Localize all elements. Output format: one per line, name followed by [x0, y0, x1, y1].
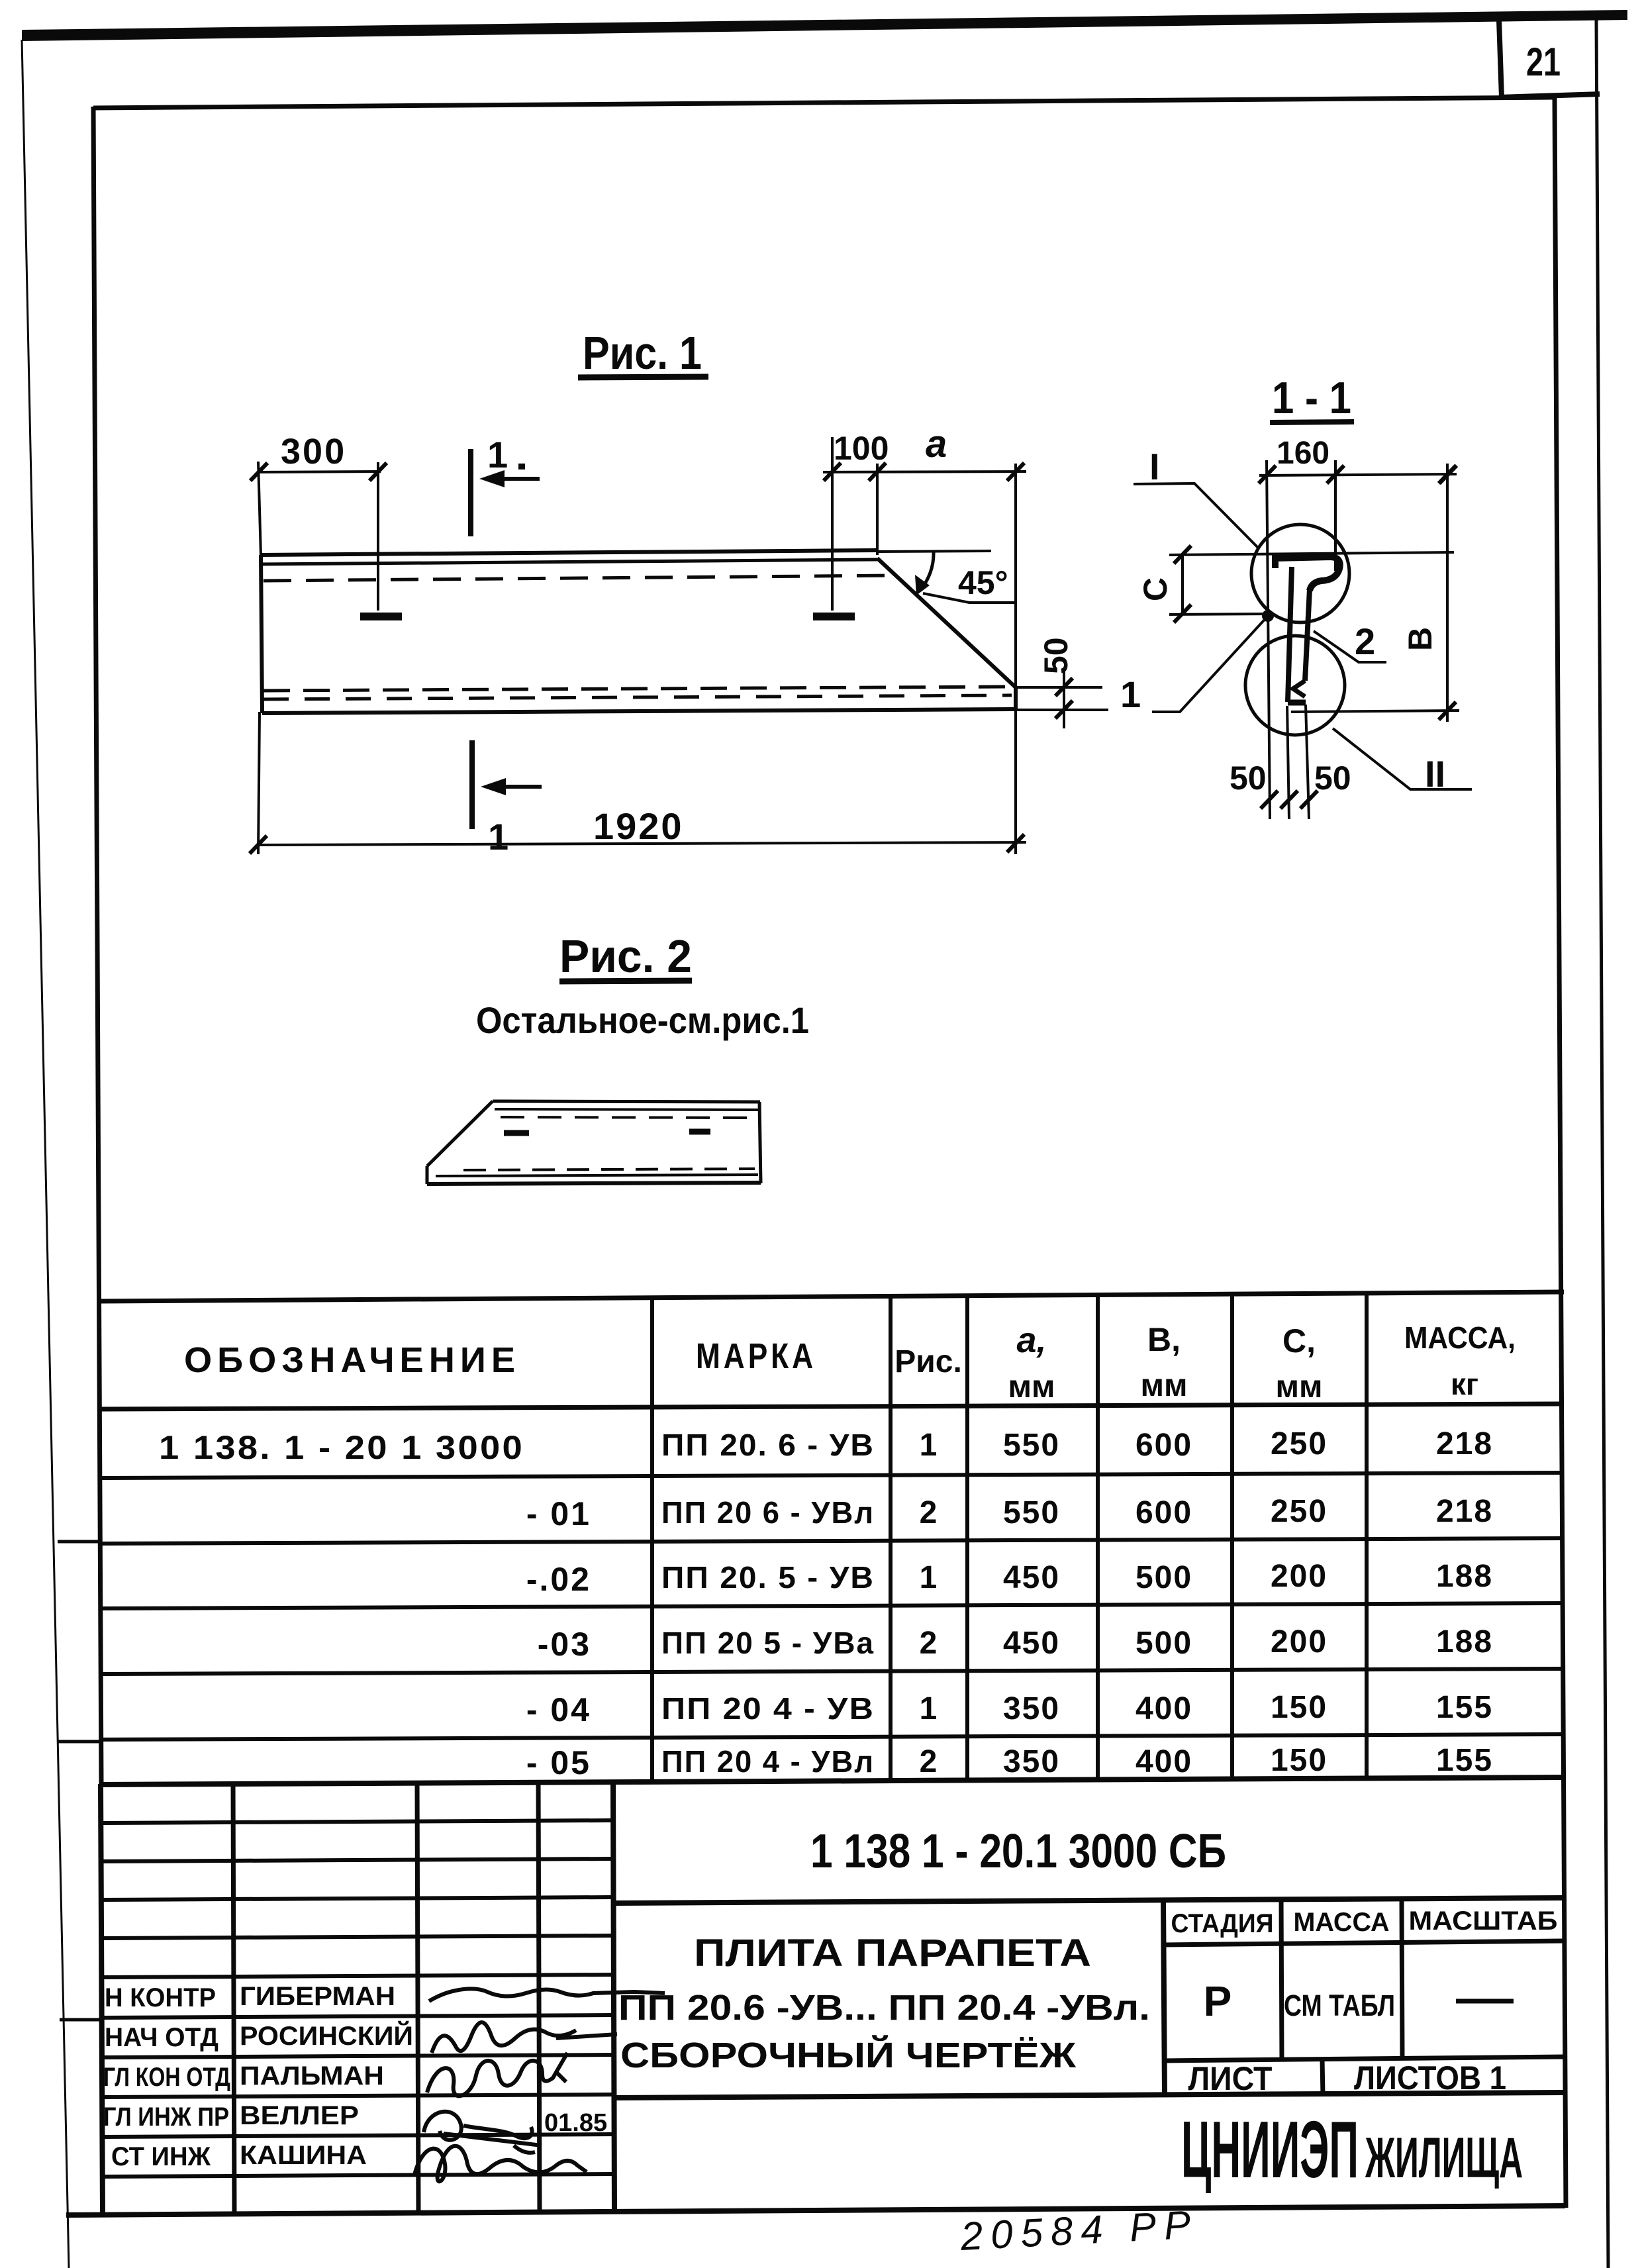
svg-text:188: 188: [1436, 1559, 1493, 1594]
svg-text:600: 600: [1135, 1428, 1192, 1463]
svg-text:500: 500: [1135, 1560, 1192, 1595]
svg-text:- 04: - 04: [526, 1691, 591, 1728]
svg-text:-03: -03: [538, 1626, 591, 1663]
svg-text:1 138 1 - 20.1 3000 СБ: 1 138 1 - 20.1 3000 СБ: [810, 1825, 1226, 1878]
svg-text:45°: 45°: [958, 564, 1008, 601]
svg-text:200: 200: [1271, 1624, 1328, 1659]
svg-text:МАССА,: МАССА,: [1404, 1320, 1516, 1355]
svg-text:1 - 1: 1 - 1: [1272, 373, 1351, 423]
svg-text:50: 50: [1314, 760, 1351, 797]
svg-text:350: 350: [1003, 1691, 1060, 1726]
svg-text:ПП 20 4 - УВл: ПП 20 4 - УВл: [661, 1744, 875, 1779]
svg-text:СТАДИЯ: СТАДИЯ: [1171, 1909, 1274, 1938]
svg-text:160: 160: [1277, 436, 1329, 471]
svg-text:СТ ИНЖ: СТ ИНЖ: [111, 2142, 211, 2171]
svg-text:450: 450: [1003, 1560, 1060, 1595]
svg-text:1: 1: [920, 1560, 938, 1595]
svg-text:НАЧ ОТД: НАЧ ОТД: [105, 2023, 218, 2052]
svg-text:21: 21: [1526, 40, 1561, 84]
svg-text:1920: 1920: [593, 805, 684, 847]
svg-text:300: 300: [281, 432, 346, 471]
svg-text:РОСИНСКИЙ: РОСИНСКИЙ: [240, 2020, 413, 2051]
svg-text:ГЛ ИНЖ ПР: ГЛ ИНЖ ПР: [103, 2102, 229, 2132]
svg-text:50: 50: [1038, 637, 1075, 674]
svg-text:-.02: -.02: [526, 1561, 591, 1598]
svg-text:- 01: - 01: [526, 1495, 591, 1532]
svg-text:ПП 20 5 - УВа: ПП 20 5 - УВа: [661, 1626, 875, 1660]
svg-text:400: 400: [1135, 1744, 1192, 1779]
svg-text:250: 250: [1271, 1426, 1328, 1461]
svg-text:ВЕЛЛЕР: ВЕЛЛЕР: [240, 2101, 359, 2130]
svg-text:155: 155: [1436, 1690, 1493, 1725]
svg-text:50: 50: [1230, 760, 1267, 797]
svg-text:- 05: - 05: [526, 1744, 591, 1781]
svg-text:a: a: [926, 422, 947, 466]
svg-text:I: I: [1149, 446, 1160, 487]
svg-text:450: 450: [1003, 1626, 1060, 1661]
svg-text:ГИБЕРМАН: ГИБЕРМАН: [240, 1982, 395, 2011]
svg-text:500: 500: [1135, 1626, 1192, 1661]
svg-text:2: 2: [1355, 620, 1375, 662]
svg-text:Рис. 2: Рис. 2: [559, 930, 692, 982]
svg-text:ЛИСТ: ЛИСТ: [1188, 2060, 1273, 2097]
svg-text:ЖИЛИЩА: ЖИЛИЩА: [1365, 2126, 1523, 2190]
svg-text:СМ ТАБЛ: СМ ТАБЛ: [1284, 1989, 1395, 2022]
svg-text:2: 2: [920, 1744, 938, 1779]
svg-text:2: 2: [920, 1495, 938, 1530]
svg-text:1: 1: [920, 1691, 938, 1726]
svg-text:Р: Р: [1204, 1977, 1232, 2025]
svg-text:СБОРОЧНЫЙ ЧЕРТЁЖ: СБОРОЧНЫЙ ЧЕРТЁЖ: [620, 2035, 1077, 2075]
svg-text:350: 350: [1003, 1744, 1060, 1779]
svg-text:150: 150: [1271, 1743, 1328, 1778]
svg-text:ПП 20. 6 - УВ: ПП 20. 6 - УВ: [661, 1428, 875, 1462]
svg-text:ОБОЗНАЧЕНИЕ: ОБОЗНАЧЕНИЕ: [184, 1340, 520, 1380]
svg-text:200: 200: [1271, 1559, 1328, 1594]
svg-text:В: В: [1402, 627, 1439, 651]
svg-text:250: 250: [1271, 1494, 1328, 1529]
svg-text:a,: a,: [1016, 1320, 1046, 1360]
svg-text:ПАЛЬМАН: ПАЛЬМАН: [240, 2061, 384, 2091]
svg-text:1: 1: [920, 1428, 938, 1463]
svg-text:В,: В,: [1147, 1321, 1181, 1358]
svg-text:ЦНИИЭП: ЦНИИЭП: [1181, 2104, 1359, 2194]
svg-text:150: 150: [1271, 1690, 1328, 1725]
svg-text:ПП 20.6 -УВ... ПП 20.4 -УВл.: ПП 20.6 -УВ... ПП 20.4 -УВл.: [618, 1988, 1150, 2028]
svg-text:1: 1: [487, 434, 508, 475]
svg-text:1: 1: [1120, 673, 1141, 715]
svg-text:мм: мм: [1275, 1369, 1322, 1405]
svg-text:400: 400: [1135, 1691, 1192, 1726]
svg-text:01.85: 01.85: [544, 2109, 607, 2137]
svg-text:600: 600: [1135, 1495, 1192, 1530]
svg-text:188: 188: [1436, 1624, 1493, 1659]
svg-text:155: 155: [1436, 1743, 1493, 1778]
svg-text:ПЛИТА ПАРАПЕТА: ПЛИТА ПАРАПЕТА: [694, 1932, 1091, 1975]
svg-text:218: 218: [1436, 1494, 1493, 1529]
svg-text:218: 218: [1436, 1426, 1493, 1461]
svg-text:ЛИСТОВ 1: ЛИСТОВ 1: [1354, 2059, 1506, 2096]
svg-text:МАССА: МАССА: [1294, 1908, 1390, 1937]
svg-text:Остальное-см.рис.1: Остальное-см.рис.1: [476, 999, 809, 1041]
svg-text:C: C: [1137, 577, 1174, 601]
svg-text:1 138. 1 - 20 1 3000: 1 138. 1 - 20 1 3000: [159, 1429, 524, 1466]
svg-text:ПП 20 4 - УВ: ПП 20 4 - УВ: [661, 1691, 875, 1726]
svg-text:МАСШТАБ: МАСШТАБ: [1409, 1906, 1558, 1936]
svg-text:550: 550: [1003, 1428, 1060, 1463]
svg-text:КАШИНА: КАШИНА: [240, 2141, 367, 2170]
svg-text:ПП 20. 5 - УВ: ПП 20. 5 - УВ: [661, 1560, 875, 1595]
svg-text:2: 2: [920, 1626, 938, 1661]
svg-text:1: 1: [488, 816, 508, 858]
svg-text:С,: С,: [1282, 1322, 1316, 1359]
svg-text:Н КОНТР: Н КОНТР: [105, 1983, 216, 2012]
svg-text:ГЛ КОН ОТД: ГЛ КОН ОТД: [103, 2063, 230, 2092]
svg-text:кг: кг: [1451, 1367, 1478, 1401]
svg-text:Рис. 1: Рис. 1: [583, 327, 702, 379]
svg-text:550: 550: [1003, 1495, 1060, 1530]
svg-text:Рис.: Рис.: [894, 1344, 962, 1379]
svg-text:мм: мм: [1140, 1368, 1187, 1403]
svg-text:ПП 20 6 - УВл: ПП 20 6 - УВл: [661, 1495, 875, 1530]
svg-text:100: 100: [834, 430, 889, 467]
svg-text:МАРКА: МАРКА: [696, 1336, 816, 1376]
svg-text:мм: мм: [1008, 1369, 1055, 1405]
